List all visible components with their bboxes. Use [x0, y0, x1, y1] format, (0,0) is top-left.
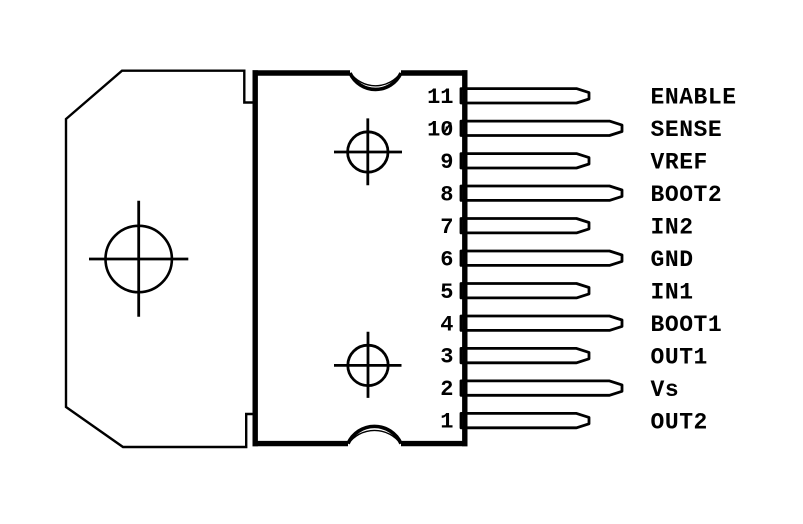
top notch: [350, 73, 401, 89]
bottom notch: [348, 426, 401, 443]
svg-text:10: 10: [427, 117, 453, 142]
svg-text:5: 5: [440, 280, 453, 305]
pin 5: [461, 284, 589, 298]
svg-text:7: 7: [440, 215, 453, 240]
svg-text:11: 11: [427, 85, 453, 110]
svg-text:SENSE: SENSE: [651, 117, 723, 143]
pin 2: [461, 381, 622, 395]
svg-text:4: 4: [440, 312, 453, 337]
svg-text:OUT2: OUT2: [651, 409, 708, 435]
pin 8: [461, 186, 622, 200]
pin 9: [461, 154, 589, 168]
mounting hole crosshair (tab): [89, 201, 188, 317]
slash of zero in 10: [444, 123, 452, 134]
pin 6: [461, 251, 622, 265]
svg-text:8: 8: [440, 182, 453, 207]
pin 1: [461, 413, 589, 427]
svg-text:OUT1: OUT1: [651, 344, 708, 370]
svg-text:1: 1: [440, 410, 453, 435]
heatsink tab outline: [66, 71, 253, 447]
pin 7: [461, 219, 589, 233]
pin 11: [461, 89, 589, 103]
svg-text:BOOT1: BOOT1: [651, 312, 723, 338]
svg-text:GND: GND: [651, 247, 694, 273]
svg-text:Vs: Vs: [651, 377, 680, 403]
svg-text:9: 9: [440, 150, 453, 175]
svg-text:3: 3: [440, 345, 453, 370]
pin 10: [461, 121, 622, 135]
svg-text:IN1: IN1: [651, 280, 694, 306]
svg-text:IN2: IN2: [651, 215, 694, 241]
svg-text:ENABLE: ENABLE: [651, 85, 737, 111]
svg-text:6: 6: [440, 247, 453, 272]
index hole crosshair (top): [334, 118, 402, 185]
svg-text:2: 2: [440, 377, 453, 402]
index hole crosshair (bottom): [334, 332, 402, 398]
pin 4: [461, 316, 622, 330]
package body border: [253, 70, 468, 446]
pin 3: [461, 348, 589, 362]
svg-text:BOOT2: BOOT2: [651, 182, 723, 208]
svg-text:VREF: VREF: [651, 150, 708, 176]
